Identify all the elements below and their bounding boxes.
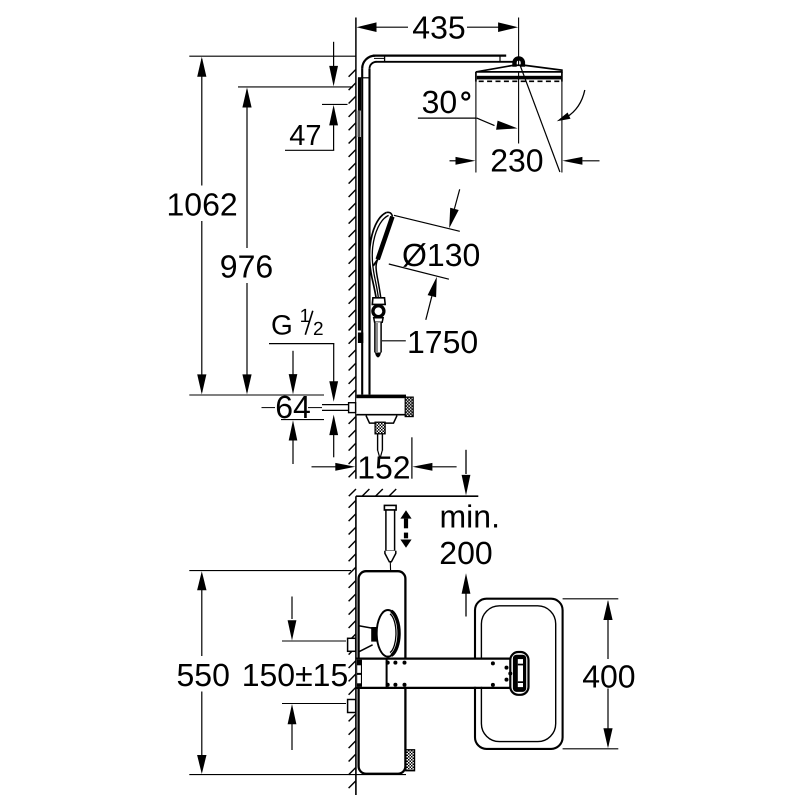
- svg-text:550: 550: [177, 657, 230, 693]
- svg-text:Ø130: Ø130: [402, 237, 480, 273]
- svg-text:1750: 1750: [407, 324, 478, 360]
- svg-text:1062: 1062: [167, 186, 238, 222]
- svg-text:min.: min.: [440, 499, 500, 535]
- svg-text:152: 152: [357, 449, 410, 485]
- svg-text:200: 200: [439, 535, 492, 571]
- svg-text:400: 400: [582, 658, 635, 694]
- svg-text:435: 435: [412, 9, 465, 45]
- svg-text:64: 64: [275, 389, 311, 425]
- svg-text:230: 230: [490, 142, 543, 178]
- svg-text:G: G: [271, 310, 293, 341]
- svg-text:150±15: 150±15: [242, 657, 349, 693]
- svg-text:30: 30: [422, 84, 458, 120]
- svg-text:2: 2: [313, 319, 324, 340]
- svg-text:976: 976: [220, 249, 273, 285]
- svg-text:47: 47: [289, 120, 321, 152]
